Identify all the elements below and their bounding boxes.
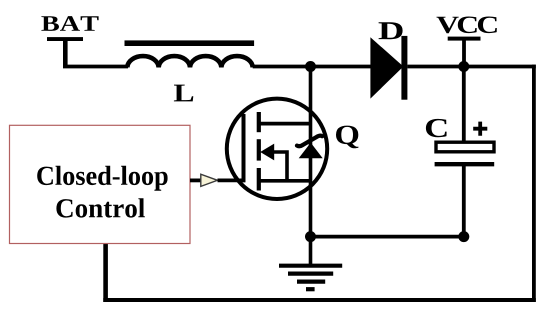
- net label BAT: [41, 16, 98, 31]
- transistor Q channel dash bottom: [257, 168, 261, 191]
- inductor L core bar: [125, 40, 255, 46]
- transistor Q body diode: [299, 143, 323, 159]
- label L: [174, 85, 193, 102]
- wire BAT to inductor: [63, 65, 128, 69]
- wire VCC node to right corner: [464, 65, 536, 69]
- wire drain-source vertical: [309, 67, 313, 237]
- wire diode to VCC node: [407, 65, 463, 69]
- wire cap top branch: [462, 67, 466, 143]
- ground: [279, 266, 342, 290]
- net label VCC: [437, 17, 497, 34]
- wire cap bottom branch: [462, 164, 466, 236]
- transistor Q channel dash middle: [257, 139, 261, 160]
- node junction VCC: [458, 61, 469, 72]
- label D: [379, 22, 403, 39]
- wire bottom feedback: [103, 298, 536, 302]
- wire right side vertical: [532, 65, 536, 302]
- wire BAT drop: [63, 39, 68, 67]
- transistor Q circle: [227, 99, 327, 199]
- wire arrow to gate: [218, 178, 246, 182]
- inductor L: [127, 56, 252, 67]
- wire VCC drop: [462, 39, 466, 67]
- label C: [426, 119, 447, 137]
- capacitor C top plate: [436, 142, 494, 152]
- BAT terminal bar: [47, 37, 83, 41]
- diode D anode triangle: [370, 37, 403, 98]
- transistor Q gate plate: [242, 114, 246, 182]
- wire inductor to diode: [253, 65, 371, 69]
- diode D cathode bar: [401, 36, 407, 100]
- gate drive arrow: [201, 174, 218, 186]
- capacitor polarity plus: [473, 122, 487, 136]
- wire source node to ground: [309, 237, 313, 265]
- transistor Q source bar: [259, 179, 311, 183]
- transistor Q body arrow: [260, 144, 274, 161]
- wire source to cap bottom: [311, 235, 464, 239]
- capacitor C bottom plate: [435, 162, 495, 166]
- wire control box drop: [103, 244, 108, 302]
- control box Closed-loop Control: [10, 125, 191, 243]
- node junction cap bottom: [458, 231, 469, 242]
- wire control box to gate arrow: [190, 178, 201, 182]
- VCC terminal bar: [448, 37, 481, 41]
- transistor Q drain bar: [259, 122, 311, 126]
- label Q: [336, 126, 358, 149]
- transistor Q channel dash top: [257, 112, 261, 132]
- transistor Q body wire: [272, 152, 287, 181]
- body diode cathode bar: [297, 136, 322, 147]
- node junction drain: [305, 61, 316, 72]
- node junction source: [305, 231, 316, 242]
